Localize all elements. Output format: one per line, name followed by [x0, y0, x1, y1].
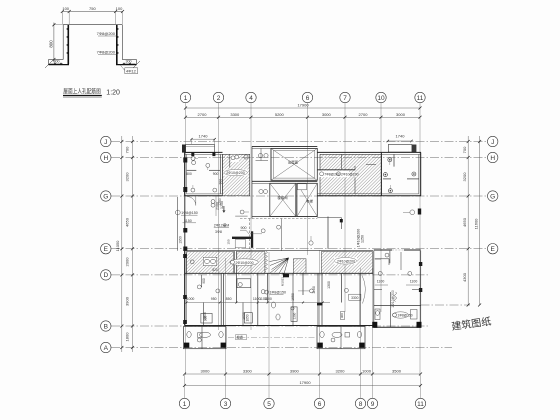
- upper-left unit top wall: [184, 151, 222, 153]
- detail curb right wall: [121, 25, 123, 60]
- svg-text:2Φ10@200: 2Φ10@200: [341, 172, 359, 176]
- core bottom wall: [252, 216, 317, 218]
- horizontal axis line B: [111, 325, 430, 327]
- rotated room dims band2: [203, 281, 331, 320]
- svg-text:1: 1: [183, 401, 187, 408]
- hatch A corner white notch: [231, 155, 240, 162]
- stair mid wall extension: [281, 219, 283, 251]
- hatch 2 label: [230, 259, 259, 266]
- svg-text:1250: 1250: [218, 198, 222, 206]
- svg-text:J: J: [491, 139, 494, 146]
- canopy dim 1740: [191, 138, 214, 140]
- left wall pier 2: [183, 187, 187, 192]
- svg-text:11: 11: [417, 401, 424, 408]
- detail top dimension line: [62, 11, 122, 13]
- svg-text:1:20: 1:20: [106, 89, 120, 96]
- hatch A partition: [229, 154, 231, 167]
- core top wall: [252, 145, 317, 147]
- upper-right top wall: [381, 151, 421, 153]
- detail rebar dots: [54, 28, 130, 64]
- lower-right pin circles: [378, 272, 382, 276]
- svg-text:7Φ8@200: 7Φ8@200: [97, 31, 116, 36]
- svg-text:E: E: [491, 246, 496, 253]
- svg-text:3000: 3000: [201, 368, 211, 373]
- mid band pin circle pair: [309, 241, 313, 245]
- svg-text:17900: 17900: [297, 103, 309, 108]
- svg-text:1100: 1100: [259, 297, 267, 301]
- door arc mid-left: [187, 197, 196, 206]
- exhaust coil symbol: [395, 292, 397, 302]
- interior pin circles: [191, 156, 217, 192]
- partition wall to hatch: [219, 154, 221, 193]
- vertical grid lines bottom set: [185, 250, 421, 398]
- top segment dim line: [186, 116, 421, 118]
- hatch B label strip: [320, 171, 350, 178]
- mid-left double wall: [177, 197, 179, 251]
- svg-text:300: 300: [54, 60, 60, 64]
- svg-text:1800: 1800: [125, 332, 130, 342]
- svg-text:D: D: [103, 272, 108, 279]
- horizontal axis line J: [111, 141, 487, 143]
- core left room wall: [270, 148, 272, 180]
- svg-text:5: 5: [267, 401, 271, 408]
- porch left fixtures: [200, 332, 211, 337]
- left dim lines: [121, 136, 123, 352]
- room walls band1 verticals: [221, 251, 421, 328]
- svg-text:1050: 1050: [242, 312, 246, 320]
- right dim lines: [467, 136, 469, 305]
- svg-text:950: 950: [211, 297, 217, 301]
- svg-text:1100: 1100: [410, 280, 418, 284]
- svg-text:3900: 3900: [125, 296, 130, 306]
- upper-right bottom wall: [381, 195, 421, 197]
- svg-text:6: 6: [318, 401, 322, 408]
- stair break coil: [265, 251, 268, 272]
- svg-text:2700: 2700: [359, 112, 369, 117]
- upper-right right wall: [420, 152, 422, 195]
- svg-text:900: 900: [213, 172, 219, 176]
- shaft box X1: [271, 148, 317, 180]
- stair fan: [270, 258, 289, 274]
- svg-text:2Φ10@200: 2Φ10@200: [236, 261, 254, 265]
- hatch B inner wall: [317, 169, 355, 171]
- svg-text:2Φ10@200: 2Φ10@200: [226, 171, 245, 175]
- svg-text:7Φ8@200: 7Φ8@200: [324, 172, 340, 176]
- pin circles: [383, 158, 416, 193]
- core pin circles: [244, 153, 268, 193]
- stair box X2: [270, 183, 296, 216]
- detail rebar label 4Φ12 boxed: [125, 68, 138, 74]
- lower-right unit top wall: [374, 249, 392, 251]
- svg-text:A: A: [104, 345, 109, 352]
- hatch A pin circles: [231, 156, 235, 160]
- right unit partitions: [389, 251, 391, 264]
- svg-text:H: H: [490, 155, 495, 162]
- upper-left unit bottom wall: [184, 195, 222, 197]
- circled 1 marker: [410, 210, 415, 215]
- svg-text:1100: 1100: [312, 286, 316, 294]
- svg-text:700: 700: [462, 146, 467, 153]
- svg-text:800: 800: [48, 40, 53, 48]
- svg-text:6: 6: [306, 95, 310, 102]
- svg-text:7: 7: [343, 95, 347, 102]
- horizontal axis line D: [111, 274, 428, 276]
- core mid wall: [252, 180, 317, 182]
- hatch piece 3 vent: [293, 259, 306, 274]
- svg-text:900: 900: [340, 313, 344, 318]
- svg-text:3200: 3200: [462, 172, 467, 182]
- hatched slab A: [223, 154, 250, 195]
- hatch 4 label: [334, 257, 357, 264]
- svg-text:7Φ8@200: 7Φ8@200: [97, 50, 116, 55]
- left wall pier 1: [183, 158, 187, 163]
- dashed hidden wall: [249, 219, 251, 253]
- duct shaft: [291, 307, 297, 322]
- axis terminator line right of E: [421, 304, 471, 306]
- porch left footings: [184, 343, 189, 348]
- interior partition horizontal with door gap: [187, 169, 197, 171]
- svg-text:4300: 4300: [462, 272, 467, 282]
- hatch piece 4: [321, 252, 372, 274]
- horizontal axis line E: [111, 248, 487, 250]
- lower-right mid wall: [374, 289, 382, 291]
- hatch divider wall: [233, 251, 235, 274]
- left wall piers mid-band: [183, 228, 187, 233]
- svg-text:3000: 3000: [396, 112, 406, 117]
- svg-text:3900: 3900: [290, 368, 300, 373]
- svg-text:900: 900: [202, 278, 206, 284]
- svg-text:3200: 3200: [125, 172, 130, 182]
- svg-text:2000: 2000: [125, 257, 130, 267]
- svg-text:1950: 1950: [179, 236, 183, 244]
- svg-text:1Φ8@150: 1Φ8@150: [270, 290, 287, 294]
- down arrow: [222, 206, 225, 213]
- canopy dark block left: [182, 145, 186, 153]
- vertical grid lines top set: [186, 103, 421, 375]
- bottom axis bubbles 1 3 5 6 8 9 11: [179, 398, 425, 408]
- basin ovals in hatch 1: [203, 257, 217, 265]
- svg-text:9: 9: [371, 401, 375, 408]
- dark beam bar: [232, 237, 251, 239]
- hatch band top edge: [185, 250, 373, 252]
- svg-text:700: 700: [125, 146, 130, 153]
- svg-text:11600: 11600: [473, 218, 478, 230]
- porch right fixtures: [332, 332, 342, 337]
- svg-text:2Φ10@200: 2Φ10@200: [337, 259, 355, 263]
- svg-text:300: 300: [126, 60, 132, 64]
- wall below core right: [327, 217, 329, 249]
- svg-text:1Φ8@150: 1Φ8@150: [181, 211, 198, 215]
- svg-text:850: 850: [226, 297, 232, 301]
- stair arrow head: [286, 258, 289, 261]
- svg-text:2Φ12横M: 2Φ12横M: [214, 222, 229, 227]
- top axis bubbles 1 2 4 6 7 10 11: [180, 92, 425, 102]
- svg-text:100: 100: [116, 6, 123, 11]
- svg-text:3Φ8: 3Φ8: [215, 230, 222, 234]
- svg-text:900: 900: [241, 226, 247, 230]
- lower-right unit footings: [372, 322, 377, 328]
- svg-text:楼梯间: 楼梯间: [277, 195, 288, 200]
- hatch band bottom edge: [185, 272, 373, 274]
- hatch B inner partition: [341, 154, 343, 169]
- svg-text:4Φ12: 4Φ12: [126, 68, 137, 73]
- svg-text:820: 820: [212, 268, 218, 272]
- svg-text:4: 4: [249, 95, 253, 102]
- svg-text:4650: 4650: [125, 217, 130, 227]
- svg-text:屋面上人孔配筋图: 屋面上人孔配筋图: [63, 88, 101, 96]
- canopy dim 1740: [388, 140, 412, 142]
- svg-text:坡道: 坡道: [237, 335, 244, 340]
- lower block left wall: [184, 251, 186, 326]
- top wall piers: [191, 152, 194, 156]
- svg-text:B: B: [104, 323, 108, 330]
- interior partitions: [393, 154, 395, 166]
- hatch piece 1: [187, 252, 234, 274]
- detail curb right foot: [122, 59, 136, 61]
- stair bottom pier: [283, 274, 289, 277]
- horizontal axis line H: [111, 157, 487, 159]
- svg-text:100: 100: [62, 6, 69, 11]
- label box 图集做法: [236, 335, 247, 340]
- svg-text:3: 3: [224, 401, 228, 408]
- lower-right unit: [374, 304, 421, 306]
- room dim row: [187, 302, 331, 304]
- band2 partitions: [204, 273, 294, 325]
- canopy dark block: [412, 145, 417, 153]
- detail curb left foot: [49, 59, 64, 61]
- porch right footings: [318, 343, 323, 348]
- canopy upper-right: [388, 145, 412, 153]
- svg-text:3000: 3000: [322, 112, 332, 117]
- right wall piers lower block: [419, 262, 422, 266]
- right axis bubbles J H G E: [488, 136, 498, 254]
- bottom segment dim line: [185, 373, 421, 375]
- svg-text:2: 2: [217, 95, 221, 102]
- svg-text:3500: 3500: [392, 368, 402, 373]
- small closet boxes: [201, 275, 252, 323]
- svg-text:900: 900: [219, 179, 223, 185]
- dash line between porches: [228, 337, 315, 339]
- svg-text:G: G: [103, 193, 108, 200]
- svg-text:1: 1: [184, 95, 188, 102]
- canopy upper-left: [186, 145, 215, 153]
- lower-right unit fixtures: [393, 312, 409, 318]
- stacked pin circles below unit: [211, 200, 215, 204]
- pin circle mid: [240, 210, 244, 214]
- svg-text:G: G: [490, 193, 495, 200]
- svg-text:3200: 3200: [336, 368, 346, 373]
- svg-text:建筑图纸: 建筑图纸: [451, 315, 492, 333]
- circled rebar label lower: [261, 290, 265, 294]
- circled rebar label 1Φ8@150: [175, 210, 180, 215]
- horizontal axis line A: [111, 347, 452, 349]
- svg-text:H: H: [103, 155, 108, 162]
- svg-text:1Φ10@200: 1Φ10@200: [391, 290, 395, 308]
- svg-text:1250: 1250: [361, 235, 365, 243]
- lower outline left units: [185, 325, 374, 327]
- left axis bubbles J H G E D B A: [101, 136, 111, 352]
- elevator box X3: [297, 183, 317, 216]
- detail top dim extension lines: [62, 12, 122, 25]
- hatch B right wall: [380, 152, 382, 195]
- svg-text:1150: 1150: [184, 219, 192, 223]
- svg-text:750: 750: [89, 6, 96, 11]
- svg-text:3300: 3300: [230, 112, 240, 117]
- svg-text:150: 150: [227, 239, 231, 244]
- svg-text:10: 10: [377, 95, 385, 102]
- lower room fixtures: [271, 302, 275, 308]
- svg-text:1000: 1000: [362, 368, 372, 373]
- extra room details right of stair: [344, 288, 348, 292]
- pier at axis6 wall: [317, 303, 323, 306]
- short wall stub: [400, 252, 402, 270]
- svg-text:1740: 1740: [396, 133, 406, 138]
- detail curb left wall: [62, 25, 64, 60]
- detail left dimension line 800: [53, 23, 55, 63]
- svg-text:电梯: 电梯: [306, 199, 313, 204]
- hatch B top wall: [317, 151, 381, 153]
- mid courtyard pins: [261, 229, 265, 233]
- horizontal axis line G: [111, 195, 487, 197]
- svg-text:3300: 3300: [351, 296, 359, 300]
- detail curb top slab line: [63, 24, 122, 26]
- svg-text:E: E: [104, 246, 109, 253]
- svg-text:800: 800: [186, 172, 192, 176]
- stair arrowhead: [282, 273, 284, 276]
- svg-text:3300: 3300: [243, 368, 253, 373]
- porch right: [317, 327, 365, 349]
- right wall pier dark: [418, 209, 421, 215]
- hatch piece 2: [237, 252, 265, 274]
- hatched slab B: [320, 154, 381, 195]
- detail top dim ticks: [61, 10, 124, 13]
- left wall piers lower block: [183, 254, 187, 258]
- svg-text:8: 8: [359, 401, 363, 408]
- hatch B bottom wall: [317, 193, 381, 195]
- svg-text:1050: 1050: [246, 314, 250, 321]
- svg-text:5200: 5200: [275, 112, 285, 117]
- hatch A label box: [224, 169, 248, 175]
- svg-text:11: 11: [417, 95, 424, 102]
- svg-text:1000: 1000: [187, 297, 195, 301]
- svg-text:11050: 11050: [115, 240, 120, 252]
- svg-text:1300: 1300: [327, 281, 331, 289]
- svg-text:J: J: [104, 139, 107, 146]
- svg-text:M1021: M1021: [281, 277, 285, 287]
- svg-text:4650: 4650: [462, 217, 467, 227]
- svg-text:出屋面: 出屋面: [288, 160, 299, 165]
- svg-text:1740: 1740: [199, 133, 209, 138]
- svg-text:17900: 17900: [299, 380, 311, 385]
- lower-right unit top partition: [388, 259, 390, 265]
- top total dim line 17900: [186, 107, 421, 109]
- svg-text:1100: 1100: [377, 280, 385, 284]
- svg-text:2700: 2700: [198, 112, 208, 117]
- upper-left unit left wall: [184, 152, 186, 195]
- bottom total dim line 17900: [185, 385, 421, 387]
- porch left: [184, 327, 227, 349]
